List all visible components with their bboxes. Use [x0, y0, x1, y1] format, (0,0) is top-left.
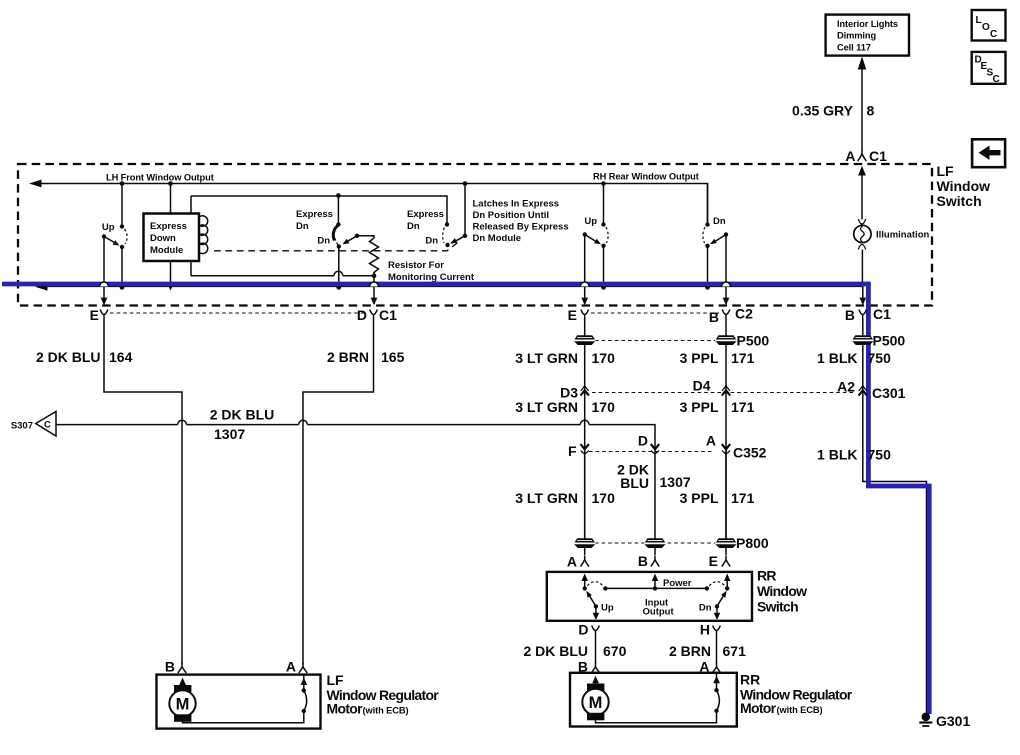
motor M RR	[582, 676, 716, 723]
box DESC	[972, 52, 1006, 85]
wire H to RR motor A	[669, 635, 746, 664]
svg-text:D: D	[578, 622, 588, 638]
switch Dn (RH)	[703, 184, 730, 306]
svg-text:Released By Express: Released By Express	[473, 222, 569, 233]
svg-text:M: M	[176, 696, 190, 714]
svg-text:164: 164	[109, 349, 133, 365]
svg-text:171: 171	[731, 399, 755, 415]
svg-text:C: C	[990, 29, 997, 40]
wire resistor to D	[371, 276, 378, 306]
svg-text:A: A	[845, 148, 855, 164]
dashed control line from module to latching switches	[214, 242, 459, 251]
svg-text:671: 671	[723, 643, 747, 659]
inline connector row F D A C352	[568, 433, 767, 461]
wire B/171 column	[725, 319, 727, 539]
svg-text:170: 170	[592, 350, 616, 366]
svg-text:2 BRN: 2 BRN	[669, 643, 711, 659]
svg-text:3 PPL: 3 PPL	[680, 490, 719, 506]
svg-text:Dn Module: Dn Module	[473, 233, 522, 244]
svg-text:Resistor For: Resistor For	[388, 260, 444, 271]
wire LH/RH window output bus	[29, 172, 708, 225]
dashed connector link E to D	[110, 312, 366, 314]
wire inner loop of express circuit	[191, 193, 447, 278]
switch Up (RH)	[581, 184, 608, 306]
svg-text:Window: Window	[937, 178, 991, 194]
wire D to LF motor A	[303, 319, 405, 665]
wire D to RR motor B	[523, 635, 626, 664]
svg-text:(with ECB): (with ECB)	[777, 705, 823, 715]
svg-text:670: 670	[603, 643, 627, 659]
inline connector row D3 D4 A2 C301	[560, 378, 906, 402]
svg-text:Cell 117: Cell 117	[837, 42, 871, 52]
circuit breaker ECB LF	[301, 676, 308, 713]
svg-text:RR: RR	[757, 568, 776, 584]
svg-text:D4: D4	[693, 378, 711, 394]
hop of ground bus over B rear output	[722, 282, 731, 286]
svg-text:750: 750	[868, 447, 892, 463]
grommet at E column	[574, 335, 596, 345]
svg-text:Up: Up	[601, 603, 614, 614]
svg-text:Latches In Express: Latches In Express	[473, 199, 560, 210]
svg-text:Express: Express	[150, 221, 187, 232]
splice S307	[11, 412, 56, 437]
switch Express Dn 2	[407, 184, 467, 248]
svg-text:C1: C1	[873, 306, 891, 322]
svg-text:C1: C1	[869, 148, 887, 164]
wire black ground run to G301	[863, 319, 927, 717]
svg-text:LF: LF	[937, 163, 955, 179]
svg-text:Module: Module	[150, 245, 183, 256]
wire columns to P800	[654, 446, 656, 555]
svg-text:C: C	[993, 74, 1000, 85]
dashed connector link E to B	[591, 312, 719, 314]
connector D below RR switch	[578, 622, 599, 638]
coil of express down module	[200, 216, 208, 254]
svg-text:L: L	[976, 15, 982, 26]
connector B C1 at LF switch	[845, 306, 891, 323]
connector A above LF motor	[286, 659, 307, 675]
switch Express Dn 1	[296, 196, 374, 287]
connector B above RR switch	[638, 553, 659, 569]
svg-text:1 BLK: 1 BLK	[817, 447, 857, 463]
svg-text:2 DK BLU: 2 DK BLU	[36, 349, 101, 365]
svg-text:Dn Position Until: Dn Position Until	[473, 210, 550, 221]
svg-text:A: A	[567, 554, 577, 570]
svg-text:E: E	[568, 307, 577, 323]
grommet at BLK column	[852, 335, 874, 345]
svg-text:C352: C352	[733, 445, 767, 461]
svg-text:170: 170	[592, 399, 616, 415]
connector A above RR switch	[567, 554, 589, 570]
resistor for monitoring current	[370, 238, 475, 283]
svg-text:8: 8	[867, 103, 875, 119]
svg-text:C301: C301	[872, 385, 906, 401]
switch internals RR	[582, 574, 731, 621]
grommet P500 row	[595, 333, 905, 349]
svg-text:3 PPL: 3 PPL	[680, 399, 719, 415]
svg-text:2 BRN: 2 BRN	[327, 349, 369, 365]
svg-text:Power: Power	[663, 578, 692, 589]
svg-text:B: B	[845, 307, 855, 323]
wire E to LF motor B	[36, 319, 182, 665]
svg-text:O: O	[982, 22, 990, 33]
connector B C2 at LF switch	[709, 306, 753, 326]
svg-text:Motor: Motor	[740, 700, 777, 716]
connector B above RR motor	[578, 659, 600, 675]
svg-text:Up: Up	[584, 216, 597, 227]
svg-text:Express: Express	[407, 209, 444, 220]
svg-text:D: D	[357, 307, 367, 323]
svg-text:C1: C1	[379, 307, 397, 323]
svg-text:750: 750	[868, 350, 892, 366]
svg-text:E: E	[709, 553, 718, 569]
svg-text:3 LT GRN: 3 LT GRN	[515, 350, 578, 366]
svg-text:3 LT GRN: 3 LT GRN	[515, 399, 578, 415]
svg-text:G301: G301	[936, 713, 970, 729]
svg-text:P500: P500	[737, 333, 770, 349]
connector E above RR switch	[709, 553, 731, 569]
connector D C1 at LF switch	[357, 307, 397, 323]
box LF Window Regulator Motor	[157, 675, 321, 729]
lamp Illumination	[854, 166, 930, 287]
svg-text:165: 165	[381, 349, 405, 365]
module Express Down Module	[144, 184, 200, 262]
svg-text:A2: A2	[837, 379, 855, 395]
svg-text:Dimming: Dimming	[837, 31, 876, 41]
svg-text:Monitoring Current: Monitoring Current	[388, 272, 475, 283]
svg-text:170: 170	[592, 490, 616, 506]
label LF Window Switch	[937, 163, 991, 209]
wire 0.35 GRY 8 to interior lights	[792, 57, 874, 151]
grommet P800 row	[574, 535, 769, 551]
svg-text:1307: 1307	[214, 426, 245, 442]
svg-text:C: C	[44, 420, 51, 431]
svg-text:Switch: Switch	[757, 599, 798, 615]
connector A C1 at top of LF window switch	[845, 148, 887, 164]
box RR Window Switch	[547, 572, 752, 621]
switch Up (LF)	[101, 184, 128, 306]
svg-text:BLU: BLU	[620, 475, 649, 491]
svg-text:171: 171	[731, 350, 755, 366]
svg-text:Illumination: Illumination	[876, 230, 930, 241]
connector H below RR switch	[700, 622, 720, 638]
svg-text:Interior Lights: Interior Lights	[837, 19, 898, 29]
svg-text:Dn: Dn	[425, 236, 438, 247]
label latches note	[473, 199, 569, 245]
svg-text:2 DK BLU: 2 DK BLU	[210, 407, 275, 423]
svg-text:Up: Up	[102, 222, 115, 233]
box RR Window Regulator Motor	[570, 673, 737, 727]
box Interior Lights Dimming Cell 117	[826, 15, 909, 56]
svg-text:RR: RR	[740, 672, 760, 688]
svg-text:P800: P800	[736, 535, 769, 551]
box back arrow icon	[972, 139, 1005, 167]
svg-text:Dn: Dn	[713, 216, 726, 227]
svg-text:D: D	[638, 433, 648, 449]
svg-text:3 PPL: 3 PPL	[680, 350, 719, 366]
svg-text:(with ECB): (with ECB)	[363, 706, 409, 716]
svg-text:B: B	[638, 553, 648, 569]
svg-text:171: 171	[731, 490, 755, 506]
wire S307 1307 to RR switch input	[56, 407, 655, 447]
hop of ground bus over E output	[100, 282, 109, 286]
svg-text:E: E	[90, 307, 99, 323]
svg-text:B: B	[709, 309, 719, 325]
svg-text:A: A	[706, 433, 716, 449]
motor M LF	[169, 678, 303, 723]
svg-text:2 DK BLU: 2 DK BLU	[523, 643, 588, 659]
svg-text:0.35 GRY: 0.35 GRY	[792, 103, 854, 119]
hop of ground bus over E rear output	[580, 282, 589, 286]
svg-text:Express: Express	[296, 209, 333, 220]
svg-text:RH Rear Window Output: RH Rear Window Output	[593, 172, 699, 182]
svg-text:LF: LF	[327, 672, 345, 688]
svg-text:Dn: Dn	[699, 603, 712, 614]
svg-text:F: F	[568, 443, 577, 459]
svg-text:1307: 1307	[660, 474, 691, 490]
svg-text:1 BLK: 1 BLK	[817, 350, 857, 366]
connector B above LF motor	[165, 659, 186, 675]
circuit breaker ECB RR	[713, 674, 720, 713]
ground G301	[919, 713, 970, 730]
svg-text:Dn: Dn	[407, 221, 420, 232]
hop of ground bus over D output	[370, 282, 379, 286]
svg-text:Switch: Switch	[937, 193, 982, 209]
connector E at LF switch C1	[90, 307, 108, 323]
svg-text:Output: Output	[643, 607, 675, 618]
connector E at LF switch C2	[568, 307, 589, 323]
wire highlighted blue ground path	[2, 284, 929, 714]
svg-text:LH Front Window Output: LH Front Window Output	[106, 173, 214, 183]
svg-text:Down: Down	[150, 233, 176, 244]
svg-text:P500: P500	[873, 333, 906, 349]
svg-text:B: B	[165, 659, 175, 675]
svg-text:Motor: Motor	[327, 701, 364, 717]
wire E/170 column	[584, 319, 586, 539]
svg-text:Dn: Dn	[296, 221, 309, 232]
svg-text:C2: C2	[735, 306, 753, 322]
connector A above RR motor	[699, 659, 720, 675]
svg-text:Dn: Dn	[317, 236, 330, 247]
svg-text:A: A	[286, 659, 296, 675]
svg-text:M: M	[589, 694, 603, 712]
dashed box LF Window Switch	[18, 164, 932, 306]
wire internal ground bus	[35, 283, 866, 305]
svg-text:Window: Window	[757, 583, 807, 599]
box LOC	[972, 10, 1006, 41]
grommet at B column	[715, 335, 737, 345]
svg-text:3 LT GRN: 3 LT GRN	[515, 490, 578, 506]
wire module to ground	[167, 261, 174, 291]
svg-text:H: H	[700, 622, 710, 638]
svg-text:S307: S307	[11, 421, 33, 432]
